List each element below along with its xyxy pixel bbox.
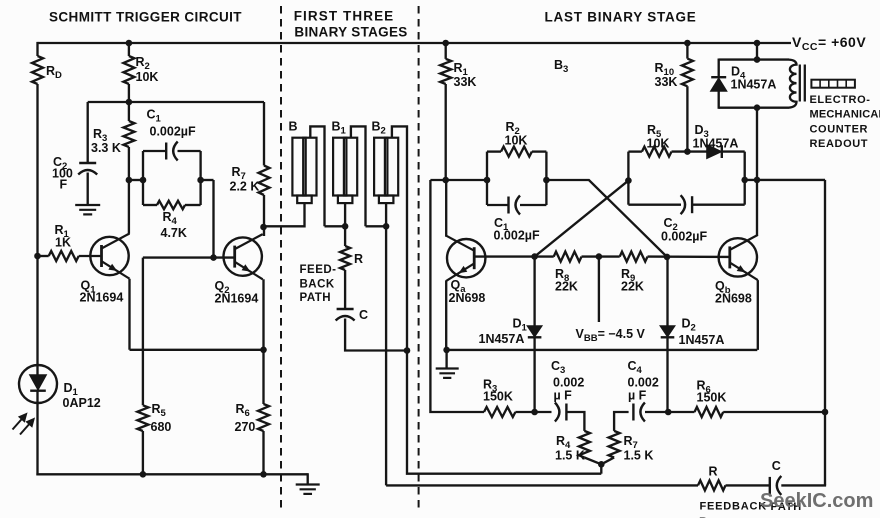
resistor R7 right <box>609 431 620 458</box>
label C1 value left <box>150 125 196 139</box>
wire R10 top stub <box>686 43 688 59</box>
label R1 right <box>454 61 469 78</box>
label Qa type <box>449 291 486 305</box>
diode D4 anode wire <box>718 59 720 79</box>
label R5 left <box>152 402 167 419</box>
wire C1R4 box top left <box>143 150 166 152</box>
node D2 base junction <box>664 254 671 261</box>
wire cross coupling 1 <box>546 180 667 257</box>
resistor RD <box>32 56 43 84</box>
svg-text:FEED-: FEED- <box>300 264 337 276</box>
ground left section <box>296 485 320 494</box>
svg-text:R4: R4 <box>163 210 178 227</box>
wire R2C1 box left side <box>486 152 488 205</box>
diode D2 right stem <box>666 257 668 327</box>
wire left rail bottom <box>36 391 38 476</box>
svg-text:2N698: 2N698 <box>449 291 486 305</box>
label Qb type <box>715 292 752 306</box>
label R10 value <box>655 75 678 89</box>
svg-text:C3: C3 <box>551 359 565 376</box>
node box to base <box>210 254 217 261</box>
wire C4 to R6 <box>645 411 695 413</box>
label R3 value <box>91 141 121 155</box>
label R9 value <box>621 280 644 294</box>
capacitor C feedback middle <box>336 309 355 321</box>
label C2 unit <box>60 178 68 192</box>
label B3 <box>554 58 568 75</box>
resistor R4 right <box>579 431 590 458</box>
wire D4 box bottom <box>719 107 789 109</box>
wire R3 to Q1 collector <box>128 147 130 234</box>
binary stage block B <box>292 138 316 203</box>
resistor R6 left <box>258 404 269 431</box>
label PATH middle <box>300 292 332 304</box>
wire base bias horizontal <box>88 101 264 103</box>
node D4 rail junction <box>754 40 761 47</box>
wire R5C2 box bottom right <box>692 204 745 206</box>
node R5 box left <box>625 177 632 184</box>
wire R5 to D3 <box>672 150 708 152</box>
label 0AP12 <box>63 396 101 410</box>
node VBB junction <box>596 253 603 260</box>
svg-text:680: 680 <box>151 420 172 434</box>
svg-text:33K: 33K <box>454 75 477 89</box>
label C2 right value <box>661 230 707 244</box>
title first three binary stages line1 <box>294 9 395 24</box>
svg-text:SeekIC.com: SeekIC.com <box>760 490 873 512</box>
section border dashed left <box>280 6 282 511</box>
resistor R2 <box>123 56 134 84</box>
wire left rail mid <box>36 84 38 376</box>
svg-text:1N457A: 1N457A <box>479 332 525 346</box>
wire emitter join <box>130 349 264 351</box>
wire block B1 bottom <box>325 203 346 246</box>
wire R5 drop <box>142 258 144 406</box>
wire R3 to C3 <box>515 411 551 413</box>
label D2 right <box>682 317 696 334</box>
label COUNTER <box>810 123 869 135</box>
label C feedback middle <box>359 308 368 322</box>
resistor R feedback bottom <box>698 480 726 490</box>
wire C1R4 box left side <box>142 151 144 205</box>
svg-text:FIRST THREE: FIRST THREE <box>294 9 395 24</box>
label D2 right type <box>679 333 725 347</box>
wire R4 left <box>143 204 157 206</box>
svg-text:F: F <box>60 178 68 192</box>
label C3 unit <box>554 389 573 403</box>
transistor Q1 <box>90 234 129 279</box>
capacitor C2 right <box>681 195 693 214</box>
label R feedback bottom <box>709 465 718 479</box>
svg-text:150K: 150K <box>483 390 513 404</box>
wire Qa base wire <box>474 255 534 257</box>
wire box to readout link <box>745 179 825 181</box>
label block B <box>289 120 298 134</box>
label D1 right type <box>479 332 525 346</box>
transistor Qb <box>719 235 758 280</box>
node box right <box>197 177 204 184</box>
wire D4 box top <box>719 58 789 60</box>
svg-text:PATH: PATH <box>300 292 332 304</box>
wire R5 bottom <box>142 431 144 474</box>
label R4 value <box>161 226 187 240</box>
svg-text:RD: RD <box>46 64 62 81</box>
label Qb <box>715 279 731 296</box>
node D1 base junction <box>531 253 538 260</box>
wire C1R4 box right side <box>199 151 201 205</box>
svg-text:R6: R6 <box>236 402 250 419</box>
node D4 box bottom <box>754 104 761 111</box>
photodiode D1 light arrow 1 <box>13 413 27 429</box>
wire block B2 bottom <box>366 203 387 485</box>
wire C1R4 box top right <box>178 150 201 152</box>
label D1 right <box>513 317 528 334</box>
wire box output down <box>212 180 214 258</box>
label R4 <box>163 210 178 227</box>
node R4R7 junction <box>598 461 605 468</box>
node B1 junction <box>342 223 349 230</box>
label C3 value <box>553 375 584 389</box>
capacitor C3 <box>555 403 567 422</box>
node R1 right rail <box>442 40 449 47</box>
label ELECTRO- <box>810 94 871 106</box>
label R8 <box>555 267 569 284</box>
svg-text:COUNTER: COUNTER <box>810 123 869 135</box>
wire R1 right top <box>445 43 447 59</box>
resistor R1 right <box>440 59 451 84</box>
label R8 value <box>555 280 578 294</box>
label R5 right <box>647 123 662 140</box>
wire bottom rail <box>36 473 307 475</box>
wire R7 bottom <box>263 195 265 236</box>
svg-text:C1: C1 <box>147 108 162 125</box>
label R feedback middle <box>354 252 363 266</box>
wire D3 to box right <box>722 150 745 152</box>
ground right section <box>436 369 459 378</box>
label C4 <box>628 359 643 376</box>
node emitter ground <box>443 347 450 354</box>
title last binary stage <box>544 10 696 25</box>
wire R8 R9 link <box>582 255 620 257</box>
wire box right link <box>201 179 214 181</box>
label D3 type <box>693 137 739 151</box>
node R6 right junction <box>822 409 829 416</box>
wire Q2 emitter down <box>262 279 264 404</box>
svg-text:22K: 22K <box>621 280 644 294</box>
resistor R7 <box>259 166 270 196</box>
svg-text:270: 270 <box>235 420 256 434</box>
binary stage block B1 <box>333 138 357 203</box>
label R7 right <box>624 434 638 451</box>
node C3 junction <box>531 409 538 416</box>
wire cross coupling 2 <box>535 181 629 257</box>
capacitor C4 <box>633 403 645 422</box>
node R1 tap <box>34 253 41 260</box>
node R5 box right <box>741 177 748 184</box>
binary stage block B2 <box>374 138 398 203</box>
resistor R1 <box>49 251 79 261</box>
resistor R7 top wire <box>263 102 265 166</box>
label Q1 <box>81 279 97 296</box>
label R7 right value <box>624 449 654 463</box>
resistor R2 top wire <box>128 43 130 56</box>
svg-text:2N1694: 2N1694 <box>215 292 259 306</box>
svg-text:2.2 K: 2.2 K <box>230 180 260 194</box>
svg-text:MECHANICAL: MECHANICAL <box>810 109 880 121</box>
resistor R8 <box>554 252 582 262</box>
svg-text:0.002: 0.002 <box>628 375 659 389</box>
svg-text:VCC= +60V: VCC= +60V <box>792 34 866 53</box>
svg-text:1N457A: 1N457A <box>693 137 739 151</box>
node B2 junction <box>383 223 390 230</box>
svg-text:C: C <box>359 308 368 322</box>
wire R1 to Q1 base <box>79 255 102 257</box>
wire ground stub bottom <box>307 473 309 484</box>
label R1 <box>55 223 70 240</box>
resistor R3 right <box>484 407 515 417</box>
resistor R10 top <box>684 40 691 47</box>
wire R to C middle <box>344 270 346 309</box>
wire ground stub right <box>445 350 447 369</box>
wire Qb emitter down <box>757 280 759 350</box>
transistor Qa <box>446 236 485 281</box>
wire block B bottom to Schmitt <box>263 203 305 226</box>
node R3 box junction <box>126 177 133 184</box>
svg-text:LAST BINARY STAGE: LAST BINARY STAGE <box>544 10 696 25</box>
label R10 <box>655 61 675 78</box>
wire D1 right lower <box>533 337 535 412</box>
wire R7 bottom elbow <box>601 458 614 465</box>
photodiode D1 triangle <box>30 375 46 389</box>
resistor R feedback middle <box>340 246 350 270</box>
label C4 unit <box>628 389 647 403</box>
label PATH bottom <box>771 501 803 513</box>
wire R7 top to C4 <box>614 412 629 431</box>
wire R2C1 box bottom left <box>487 204 509 206</box>
node R10 junction <box>684 148 691 155</box>
label R2 value <box>136 70 159 84</box>
node R2 box left <box>484 177 491 184</box>
resistor R5 right <box>642 147 672 157</box>
node R2 R3 junction <box>126 99 133 106</box>
label Q2 type <box>215 292 259 306</box>
wire Qa emitter down <box>445 280 447 350</box>
node R2 rail junction <box>126 40 133 47</box>
svg-text:BACK: BACK <box>300 278 335 290</box>
wire R4 bottom elbow <box>584 458 601 465</box>
node collector Qa junction <box>442 177 449 184</box>
label D3 <box>695 123 709 140</box>
wire R5C2 box left side <box>627 152 629 205</box>
node emitter join <box>260 347 267 354</box>
svg-text:4.7K: 4.7K <box>161 226 187 240</box>
wire R5C2 box right side <box>744 152 746 205</box>
svg-text:BINARY STAGES: BINARY STAGES <box>294 25 407 40</box>
capacitor C1 left section <box>166 142 178 161</box>
label R7 value <box>230 180 260 194</box>
node D4 box top <box>754 56 761 63</box>
label D4 <box>731 65 746 82</box>
resistor R1 left wire <box>38 255 49 257</box>
label Q1 type <box>80 291 124 305</box>
relay core bar 1 <box>799 65 801 102</box>
watermark SeekIC.com <box>760 490 873 512</box>
wire Qa collector up <box>445 180 447 237</box>
node R2 box right <box>543 177 550 184</box>
label R1 value <box>55 236 71 250</box>
resistor R5 left <box>137 405 148 431</box>
label R6 left <box>236 402 250 419</box>
svg-text:1.5 K: 1.5 K <box>624 449 654 463</box>
wire readout right vertical <box>824 180 826 486</box>
svg-text:1N457A: 1N457A <box>679 333 725 347</box>
diode D4 triangle <box>711 79 726 91</box>
svg-text:1.5 K: 1.5 K <box>555 449 585 463</box>
node C junction middle <box>404 347 411 354</box>
wire VBB stub <box>598 257 600 322</box>
node box left <box>140 177 147 184</box>
svg-text:D2: D2 <box>682 317 696 334</box>
wire R6 bottom <box>262 431 264 474</box>
label D1 photodiode <box>64 381 79 398</box>
wire R9 to Qb base <box>648 255 731 258</box>
section border dashed right <box>418 6 420 511</box>
wire C bottom middle <box>345 319 407 351</box>
label R4 right <box>556 434 571 451</box>
label D4 type <box>731 78 777 92</box>
svg-text:150K: 150K <box>697 391 727 405</box>
label R3 right <box>483 378 497 395</box>
node R6 rail <box>260 471 267 478</box>
label R2 right value <box>505 134 528 148</box>
label C1 right value <box>494 229 540 243</box>
wire C3 to R4 <box>566 412 584 431</box>
svg-text:3.3 K: 3.3 K <box>91 141 121 155</box>
label Qa <box>451 278 467 295</box>
capacitor C feedback bottom <box>770 476 782 495</box>
svg-text:READOUT: READOUT <box>810 138 869 150</box>
svg-text:µ F: µ F <box>554 389 573 403</box>
relay core bar 2 <box>804 65 806 102</box>
svg-text:B: B <box>289 120 298 134</box>
label R3 right value <box>483 390 513 404</box>
wire block B top pin <box>310 126 324 226</box>
label R7 <box>232 165 246 182</box>
wire box left link <box>129 179 143 181</box>
wire R2C1 box bottom right <box>520 204 546 206</box>
label C2 <box>53 155 67 172</box>
wire collector mid link <box>430 179 487 181</box>
wire emitter rail right <box>447 349 758 351</box>
label BACK <box>300 278 335 290</box>
resistor R9 <box>620 252 648 262</box>
resistor R2 right <box>501 147 532 157</box>
svg-text:ELECTRO-: ELECTRO- <box>810 94 871 106</box>
ground C2 <box>75 205 100 214</box>
electromechanical counter symbol <box>811 80 855 88</box>
label C2 value <box>52 167 73 181</box>
svg-text:µ F: µ F <box>628 389 647 403</box>
wire block B2 top pin <box>392 126 407 350</box>
diode D3 bar <box>721 145 723 158</box>
wire base link R8 left <box>535 255 554 257</box>
svg-text:B2: B2 <box>372 120 386 137</box>
wire Q2 base horizontal <box>143 256 235 258</box>
label C2 right <box>664 216 678 233</box>
capacitor C1 right <box>509 196 521 215</box>
svg-text:C: C <box>772 459 781 473</box>
label C1 right <box>494 216 509 233</box>
label C1 left <box>147 108 162 125</box>
label R2 <box>136 55 150 72</box>
transistor Q2 <box>224 234 263 279</box>
wire R5C2 box top left <box>628 150 642 152</box>
svg-text:2N1694: 2N1694 <box>80 291 124 305</box>
svg-text:FEEDBACK: FEEDBACK <box>700 501 768 513</box>
svg-text:2N698: 2N698 <box>715 292 752 306</box>
svg-text:B3: B3 <box>554 58 568 75</box>
diode D4 cathode wire <box>718 91 720 109</box>
photodiode D1 circle <box>19 365 57 403</box>
label Q2 <box>215 279 230 296</box>
wire feedback left vertical <box>430 180 484 412</box>
label FEEDBACK <box>700 501 768 513</box>
label R4 right value <box>555 449 585 463</box>
label R1 right value <box>454 75 477 89</box>
label R9 <box>621 267 635 284</box>
svg-text:10K: 10K <box>647 137 670 151</box>
svg-text:0.002: 0.002 <box>553 375 584 389</box>
label R6 value left <box>235 420 256 434</box>
svg-text:SCHMITT TRIGGER CIRCUIT: SCHMITT TRIGGER CIRCUIT <box>49 10 242 25</box>
resistor R3 <box>123 121 134 147</box>
resistor R4 in box <box>157 201 185 209</box>
node readout drop junction <box>754 177 761 184</box>
wire D4 to Qb collector <box>756 108 758 236</box>
label R6 right value <box>697 391 727 405</box>
svg-text:R5: R5 <box>152 402 167 419</box>
diode D2 right bar <box>661 336 675 338</box>
label VBB <box>576 327 646 344</box>
photodiode D1 light arrow 2 <box>20 418 34 434</box>
title Schmitt trigger section <box>49 10 242 25</box>
label block B2 <box>372 120 386 137</box>
wire R5C2 box bottom left <box>628 204 681 206</box>
label C4 value <box>628 375 659 389</box>
title first three binary stages line2 <box>294 25 407 40</box>
wire R4R7 stub <box>600 464 602 473</box>
label Vcc supply <box>792 34 866 53</box>
label C feedback bottom <box>772 459 781 473</box>
svg-text:1K: 1K <box>55 236 71 250</box>
wire R2C1 box top left <box>487 150 501 152</box>
label R5 right value <box>647 137 670 151</box>
label C3 <box>551 359 565 376</box>
svg-text:R: R <box>709 465 718 479</box>
wire R to C feedback <box>726 484 770 486</box>
diode D2 right triangle <box>661 326 675 336</box>
capacitor C2 <box>78 163 97 175</box>
label R3 <box>93 127 107 144</box>
resistor R10 <box>682 59 693 87</box>
node Schmitt output <box>260 224 267 231</box>
svg-text:R: R <box>354 252 363 266</box>
label partial glyph <box>699 515 708 523</box>
label RD <box>46 64 62 81</box>
wire R10 bottom <box>686 86 688 151</box>
label R5 value left <box>151 420 172 434</box>
diode D1 right triangle <box>528 326 542 336</box>
